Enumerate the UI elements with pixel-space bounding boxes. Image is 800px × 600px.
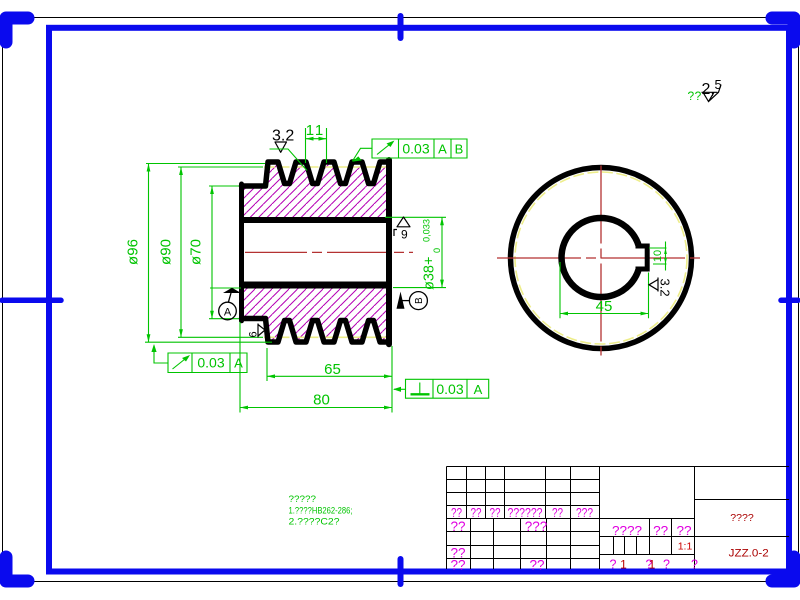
- svg-text:????: ????: [612, 523, 642, 538]
- svg-text:0.03: 0.03: [436, 381, 463, 397]
- dim 45 ext + line: [560, 262, 649, 318]
- svg-text:ø96: ø96: [125, 239, 142, 265]
- green notes bottom left: [289, 494, 353, 528]
- outer circle: [511, 168, 692, 349]
- svg-text:A: A: [224, 307, 232, 319]
- corner mark bottom-right: [772, 557, 794, 581]
- svg-text:??: ??: [490, 506, 501, 520]
- keyway flat: [645, 244, 650, 272]
- svg-text:6: 6: [248, 331, 260, 337]
- svg-text:B: B: [455, 142, 464, 157]
- dia38 dim line: [441, 217, 443, 287]
- svg-text:ø70: ø70: [188, 239, 205, 265]
- svg-text:???: ???: [576, 506, 593, 520]
- svg-text:A: A: [438, 142, 447, 157]
- svg-text:????: ????: [730, 513, 754, 524]
- centering tick left: [2, 298, 61, 304]
- dim 11 line: [306, 138, 327, 140]
- svg-text:65: 65: [324, 361, 341, 378]
- dia90 ext lines: [178, 167, 263, 337]
- centering tick top: [398, 16, 404, 38]
- svg-text:A: A: [234, 356, 243, 371]
- roughness 6 at bottom step (rotated): [258, 324, 265, 338]
- roughness 3.2 at keyway (rotated): [649, 278, 658, 292]
- centering tick bottom: [398, 559, 404, 584]
- green dim texts: [125, 122, 613, 409]
- tolerance frame 1 (runout 0.03 A B) top right: [353, 139, 468, 161]
- centering tick right: [781, 298, 798, 304]
- svg-text:11: 11: [306, 122, 326, 139]
- svg-text:???: ???: [525, 519, 548, 534]
- dia96 ext lines: [145, 164, 272, 343]
- svg-text:80: 80: [313, 392, 330, 409]
- hatch band lower: [242, 285, 390, 343]
- tolerance frame 2 (runout 0.03 A) bottom left: [154, 346, 247, 373]
- dia38 ext lines: [210, 217, 446, 288]
- svg-text:?: ?: [610, 558, 617, 572]
- left face: [239, 184, 244, 321]
- yellow pitch circle: [515, 172, 687, 344]
- dim 11 ext lines: [306, 128, 327, 163]
- datum A: [223, 288, 241, 293]
- title block texts magenta: [451, 506, 593, 520]
- green arrowheads: [147, 137, 667, 410]
- svg-text:0: 0: [432, 248, 442, 253]
- svg-text:B: B: [414, 297, 425, 304]
- keyway top wall: [636, 244, 648, 249]
- svg-text:JZZ.0-2: JZZ.0-2: [729, 548, 769, 560]
- svg-text:??: ??: [688, 89, 702, 103]
- svg-text:??: ??: [552, 506, 563, 520]
- pitch line upper (yellow dashed): [264, 166, 394, 168]
- svg-text:??????: ??????: [508, 506, 543, 520]
- svg-text:3.2: 3.2: [658, 279, 673, 297]
- top profile outline: [242, 162, 390, 186]
- svg-text:??: ??: [529, 558, 544, 573]
- svg-text:?: ?: [691, 558, 698, 572]
- dia70 dim line: [211, 186, 213, 319]
- svg-text:2,: 2,: [702, 81, 715, 98]
- centerline (red dash-dot): [245, 251, 413, 253]
- red centerline horizontal: [497, 257, 702, 259]
- svg-text:?: ?: [663, 558, 670, 572]
- datum B: [397, 292, 405, 309]
- svg-text:??: ??: [677, 523, 692, 538]
- dia96 dim line: [148, 164, 150, 343]
- svg-text:45: 45: [596, 298, 613, 315]
- dia38 tolerance text (rotated): [421, 219, 442, 290]
- svg-text:??: ??: [450, 519, 465, 534]
- svg-text:10: 10: [652, 250, 664, 262]
- bore circle with keyway gap: [562, 218, 639, 297]
- svg-text:1: 1: [620, 558, 627, 572]
- dia70 ext lines: [209, 186, 239, 319]
- svg-text:??: ??: [451, 506, 462, 520]
- svg-text:A: A: [474, 382, 483, 397]
- svg-text:??: ??: [471, 506, 482, 520]
- hatch band upper: [242, 162, 390, 220]
- svg-text:0,033: 0,033: [422, 219, 432, 242]
- svg-text:??: ??: [653, 523, 668, 538]
- dia90 dim line: [180, 167, 182, 337]
- svg-text:1: 1: [649, 558, 656, 572]
- bore top line: [242, 217, 390, 223]
- svg-text:0.03: 0.03: [402, 141, 429, 157]
- right face: [386, 160, 392, 344]
- corner mark top-right: [772, 18, 794, 42]
- bottom profile outline: [242, 319, 390, 343]
- svg-text:ø90: ø90: [158, 239, 175, 265]
- roughness triangle-9 right of bore: [397, 217, 410, 227]
- tolerance frame 3 (perp 0.03 A) bottom right: [394, 379, 489, 398]
- red centerline vertical: [600, 166, 602, 356]
- svg-text:1.????HB262-286;: 1.????HB262-286;: [289, 506, 353, 517]
- dim 80 ext + line: [240, 322, 392, 413]
- corner mark bottom-left: [6, 557, 28, 581]
- corner mark top-left: [6, 18, 28, 42]
- keyway width dim: [649, 242, 667, 271]
- bore bottom line: [242, 282, 390, 289]
- pitch line lower (yellow dashed): [264, 336, 394, 338]
- svg-text:9: 9: [401, 228, 408, 242]
- dim 65 ext + line: [267, 346, 392, 413]
- svg-text:??: ??: [450, 558, 465, 573]
- svg-text:2.????C2?: 2.????C2?: [289, 517, 340, 528]
- svg-text:1:1: 1:1: [678, 541, 693, 553]
- svg-text:?????: ?????: [289, 494, 317, 505]
- svg-text:0.03: 0.03: [197, 355, 224, 371]
- keyway bottom wall: [636, 267, 648, 272]
- svg-text:ø38+: ø38+: [421, 257, 437, 290]
